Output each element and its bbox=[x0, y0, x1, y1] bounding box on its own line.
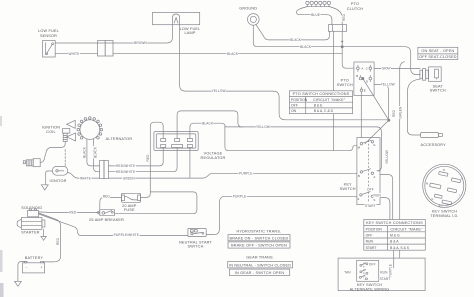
junction dot B bbox=[388, 119, 390, 121]
svg-text:WHITE: WHITE bbox=[68, 52, 79, 56]
svg-text:LAMP: LAMP bbox=[184, 31, 195, 35]
svg-text:YELLOW: YELLOW bbox=[381, 83, 395, 87]
svg-text:B: B bbox=[356, 74, 358, 78]
wire coil to spark plug bbox=[40, 142, 65, 163]
svg-text:RED/WHITE: RED/WHITE bbox=[116, 164, 135, 168]
svg-text:YELLOW: YELLOW bbox=[212, 89, 226, 93]
ground symbol below battery bbox=[15, 281, 22, 286]
wire regulator bottom pin1 to connector (RED/WHITE) bbox=[108, 148, 163, 166]
key switch pin letters bbox=[357, 143, 376, 202]
svg-text:CIRCUIT "MAKE": CIRCUIT "MAKE" bbox=[390, 227, 423, 231]
wire PTO switch to seat switch (GRAY) bbox=[374, 67, 420, 69]
wire coil to ignitor bbox=[64, 150, 66, 167]
svg-text:OFF: OFF bbox=[367, 188, 374, 192]
svg-text:B: B bbox=[358, 174, 360, 178]
svg-text:RED: RED bbox=[146, 154, 150, 162]
svg-text:ACCESSORY: ACCESSORY bbox=[420, 143, 446, 147]
svg-text:BLACK: BLACK bbox=[227, 52, 239, 56]
svg-text:GROUND: GROUND bbox=[239, 7, 257, 11]
wire PTO clutch left lead (BLUE) bbox=[297, 7, 332, 25]
battery polarity bbox=[26, 266, 43, 270]
20 amp fuse bbox=[121, 193, 140, 202]
key switch connections table bbox=[364, 220, 426, 251]
svg-text:COIL: COIL bbox=[46, 130, 56, 134]
wire regulator pin2 loop to mid yellow run bbox=[177, 111, 244, 139]
svg-text:BRAKE OFF - SWITCH OPEN: BRAKE OFF - SWITCH OPEN bbox=[231, 244, 287, 248]
svg-text:C: C bbox=[366, 66, 368, 70]
low fuel sensor bbox=[43, 41, 56, 58]
wire fuse left to breaker (RED) bbox=[100, 197, 122, 209]
seat switch plug connector bbox=[420, 67, 441, 81]
svg-text:OFF: OFF bbox=[369, 263, 376, 267]
wire regulator pin1 loop down to fuse (RED) bbox=[141, 122, 164, 197]
wire mid yellow run to key switch right (YELLOW) bbox=[225, 127, 381, 171]
svg-text:FUSE: FUSE bbox=[124, 208, 135, 212]
wire resume below table into alt box purple bbox=[379, 250, 394, 272]
svg-text:BATTERY: BATTERY bbox=[25, 256, 44, 260]
wire regulator bottom pin2 to connector (RED/WHITE) bbox=[108, 148, 177, 172]
key switch alternate wiring box bbox=[338, 258, 425, 291]
arrowhead on clutch wire bbox=[341, 41, 344, 44]
svg-text:LOW FUEL: LOW FUEL bbox=[180, 27, 201, 31]
junction dot A bbox=[341, 46, 343, 48]
svg-text:BROWN: BROWN bbox=[134, 41, 147, 45]
pto switch connections table bbox=[289, 91, 352, 114]
pto clutch connector circles bbox=[306, 1, 331, 6]
svg-text:KEY SWITCH CONNECTIONS: KEY SWITCH CONNECTIONS bbox=[366, 221, 423, 225]
svg-text:RED: RED bbox=[392, 109, 396, 117]
svg-text:ALTERNATOR: ALTERNATOR bbox=[106, 137, 133, 141]
wire solenoid to battery (RED) bbox=[39, 213, 61, 262]
svg-text:BLACK: BLACK bbox=[202, 121, 214, 125]
svg-text:GREEN: GREEN bbox=[123, 176, 136, 180]
wire sensor bottom to connector (WHITE) bbox=[55, 53, 97, 55]
svg-text:+: + bbox=[40, 266, 42, 270]
wire starter to ground bbox=[43, 229, 45, 236]
svg-text:RED: RED bbox=[69, 211, 77, 215]
pto clutch connector rectangle bbox=[328, 25, 346, 32]
svg-text:B & E: B & E bbox=[314, 104, 323, 108]
wire connector green to key switch (GREEN/PURPLE) bbox=[108, 173, 357, 178]
svg-text:IN NEUTRAL - SWITCH CLOSED: IN NEUTRAL - SWITCH CLOSED bbox=[229, 263, 291, 267]
connector C2 (mid left) bbox=[100, 161, 109, 179]
wire connector to PTO area (BLACK) bbox=[113, 53, 342, 55]
svg-text:RED/WHITE: RED/WHITE bbox=[116, 170, 135, 174]
wire key switch to neutral start switch (PURPLE) bbox=[206, 196, 357, 234]
svg-text:IN GEAR - SWITCH OPEN: IN GEAR - SWITCH OPEN bbox=[235, 271, 285, 275]
svg-text:TERMINAL I.D.: TERMINAL I.D. bbox=[430, 214, 458, 218]
ground symbol right of starter bbox=[41, 236, 46, 240]
svg-text:GREEN: GREEN bbox=[399, 106, 403, 119]
svg-text:RED: RED bbox=[103, 195, 111, 199]
svg-text:B & A: B & A bbox=[390, 240, 399, 244]
svg-text:B & A, C & D: B & A, C & D bbox=[314, 109, 334, 113]
svg-text:START: START bbox=[380, 277, 391, 281]
wire solenoid to breaker (RED) bbox=[39, 211, 100, 214]
svg-text:CIRCUIT "MAKE": CIRCUIT "MAKE" bbox=[313, 98, 346, 102]
starter motor bbox=[17, 218, 45, 230]
low fuel lamp bbox=[153, 12, 200, 24]
svg-text:S: S bbox=[373, 198, 375, 202]
svg-text:STARTER: STARTER bbox=[21, 230, 40, 234]
svg-text:GEAR TRANS.: GEAR TRANS. bbox=[246, 256, 274, 260]
key switch bbox=[357, 138, 380, 205]
svg-text:B & A, S & S: B & A, S & S bbox=[390, 246, 410, 250]
svg-text:PURPLE: PURPLE bbox=[239, 171, 252, 175]
wire solenoid to neutral start switch (PURPLE/WHITE) bbox=[39, 214, 188, 236]
svg-text:ON SEAT - OPEN: ON SEAT - OPEN bbox=[421, 49, 454, 53]
wire regulator bottom pin3 to green run bbox=[189, 148, 191, 179]
svg-text:IGNITION: IGNITION bbox=[42, 125, 60, 129]
svg-text:PURPLE: PURPLE bbox=[233, 195, 246, 199]
svg-text:BLACK: BLACK bbox=[290, 38, 302, 42]
WIRES-GROUP bbox=[39, 7, 421, 273]
svg-text:GRAY: GRAY bbox=[382, 67, 392, 71]
svg-text:SOLENOID: SOLENOID bbox=[21, 206, 42, 210]
wire diagonal junction dot to key switch top bbox=[365, 120, 389, 143]
svg-text:BLACK: BLACK bbox=[83, 146, 87, 158]
wire diagonal PTO switch B to junction dot bbox=[363, 79, 389, 121]
wire seat area down to accessory bbox=[408, 79, 421, 135]
terminal id letters bbox=[426, 169, 463, 208]
svg-text:BLACK: BLACK bbox=[300, 45, 312, 49]
on seat / off seat annotation boxes bbox=[418, 47, 458, 59]
svg-text:BLUE: BLUE bbox=[311, 13, 320, 17]
svg-text:M: M bbox=[426, 182, 428, 185]
wire alternator lead 2 (BLACK) bbox=[94, 139, 100, 172]
spark plug bbox=[23, 159, 40, 167]
key switch terminal id circle bbox=[423, 164, 466, 207]
wire regulator pin3 loop (BLACK) bbox=[190, 123, 225, 138]
wire PTO clutch right lead down to PTO switch A bbox=[329, 7, 342, 25]
svg-text:START: START bbox=[366, 246, 377, 250]
svg-text:LOW FUEL: LOW FUEL bbox=[38, 29, 59, 33]
neutral start switch bbox=[188, 228, 206, 236]
svg-text:A: A bbox=[373, 175, 375, 179]
voltage regulator bbox=[154, 132, 198, 151]
svg-text:RUN: RUN bbox=[366, 240, 374, 244]
svg-text:KEY SWITCH: KEY SWITCH bbox=[432, 210, 457, 214]
pto switch pin letters bbox=[356, 66, 368, 92]
svg-text:ON: ON bbox=[291, 109, 297, 113]
ground symbol below ignitor bbox=[41, 185, 48, 190]
svg-text:SWITCH: SWITCH bbox=[430, 89, 446, 93]
svg-text:S: S bbox=[357, 197, 359, 201]
svg-text:25 AMP BREAKER: 25 AMP BREAKER bbox=[89, 218, 124, 222]
svg-text:RUN: RUN bbox=[380, 271, 388, 275]
25 amp breaker bbox=[97, 209, 115, 215]
wire ground vertical to seat switch (BLACK) bbox=[253, 25, 420, 74]
wire sensor top to lamp (BROWN) bbox=[55, 25, 172, 43]
svg-text:D: D bbox=[366, 79, 368, 83]
wire branch down to key switch top run (BLACK) bbox=[225, 126, 357, 151]
svg-text:YELLOW: YELLOW bbox=[385, 150, 389, 164]
wire ignitor to connector (WHITE) bbox=[68, 173, 100, 179]
wire PTO switch E down to key switch bbox=[360, 92, 362, 138]
svg-text:REGULATOR: REGULATOR bbox=[201, 156, 226, 160]
battery bbox=[18, 261, 45, 281]
connector C1 bbox=[98, 41, 114, 57]
svg-text:M & G: M & G bbox=[390, 234, 400, 238]
svg-text:PURPLE/WHITE: PURPLE/WHITE bbox=[114, 233, 139, 237]
svg-text:IGNITOR: IGNITOR bbox=[49, 179, 66, 183]
svg-text:TAN: TAN bbox=[344, 270, 351, 274]
accessory connector bbox=[420, 132, 442, 137]
wire breaker right return loop bbox=[115, 192, 197, 214]
svg-text:OFF SEAT-CLOSED: OFF SEAT-CLOSED bbox=[419, 55, 457, 59]
svg-text:PTO: PTO bbox=[351, 2, 359, 6]
svg-text:−: − bbox=[26, 266, 28, 270]
wire resume below table into alt box top bbox=[399, 250, 401, 258]
svg-text:RED: RED bbox=[342, 13, 346, 21]
alternator stator circle with ticks bbox=[77, 117, 103, 140]
svg-text:BLACK: BLACK bbox=[94, 146, 98, 158]
wire key switch run terminal down (RUN) bbox=[380, 198, 390, 220]
wire ground diagonal to clutch rectangle (BLACK) bbox=[256, 24, 330, 40]
svg-text:SWITCH: SWITCH bbox=[340, 187, 356, 191]
wire clutch rectangle down to key switch run bbox=[333, 31, 335, 150]
svg-text:BRAKE ON - SWITCH CLOSED: BRAKE ON - SWITCH CLOSED bbox=[230, 236, 289, 240]
svg-text:POSITION: POSITION bbox=[291, 98, 308, 102]
svg-text:WHITE: WHITE bbox=[80, 176, 91, 180]
wire alt box tan lead bbox=[340, 271, 357, 273]
wire seat bundle down right side (GREEN) bbox=[400, 62, 405, 220]
svg-text:RED: RED bbox=[56, 237, 60, 245]
svg-text:ALTERNATE WIRING: ALTERNATE WIRING bbox=[350, 287, 390, 291]
svg-text:A: A bbox=[361, 66, 363, 70]
svg-text:SENSOR: SENSOR bbox=[40, 34, 57, 38]
hydrostatic trans annotation boxes bbox=[228, 235, 293, 276]
wire key switch right mid down behind table bbox=[380, 175, 393, 220]
svg-text:PURPLE: PURPLE bbox=[389, 264, 393, 277]
ignitor bbox=[53, 166, 68, 175]
svg-text:PTO SWITCH CONNECTIONS: PTO SWITCH CONNECTIONS bbox=[293, 92, 350, 96]
svg-text:YELLOW: YELLOW bbox=[256, 125, 270, 129]
svg-text:SWITCH: SWITCH bbox=[337, 83, 353, 87]
svg-text:OFF: OFF bbox=[291, 104, 298, 108]
svg-text:OFF: OFF bbox=[366, 234, 373, 238]
wire alternator lead 1 (BLACK) bbox=[87, 139, 100, 166]
svg-text:START: START bbox=[365, 204, 376, 208]
svg-text:POSITION: POSITION bbox=[366, 227, 383, 231]
wire ignitor to ground bbox=[46, 171, 53, 185]
wire lamp lead down to yellow run to junction dot bbox=[180, 25, 389, 120]
wire PTO switch yellow down right side (YELLOW/GREEN) bbox=[374, 85, 388, 121]
solenoid bbox=[28, 209, 39, 217]
svg-text:SWITCH: SWITCH bbox=[187, 245, 203, 249]
svg-text:E: E bbox=[364, 88, 366, 92]
ground symbol (engine ground) bbox=[248, 14, 260, 26]
edge smudge marks bbox=[0, 116, 4, 297]
pto switch bbox=[354, 62, 374, 95]
svg-text:HYDROSTATIC TRANS.: HYDROSTATIC TRANS. bbox=[236, 229, 281, 233]
svg-text:G: G bbox=[431, 198, 433, 201]
svg-text:CLUTCH: CLUTCH bbox=[347, 7, 364, 11]
ignition coil bbox=[63, 120, 76, 141]
